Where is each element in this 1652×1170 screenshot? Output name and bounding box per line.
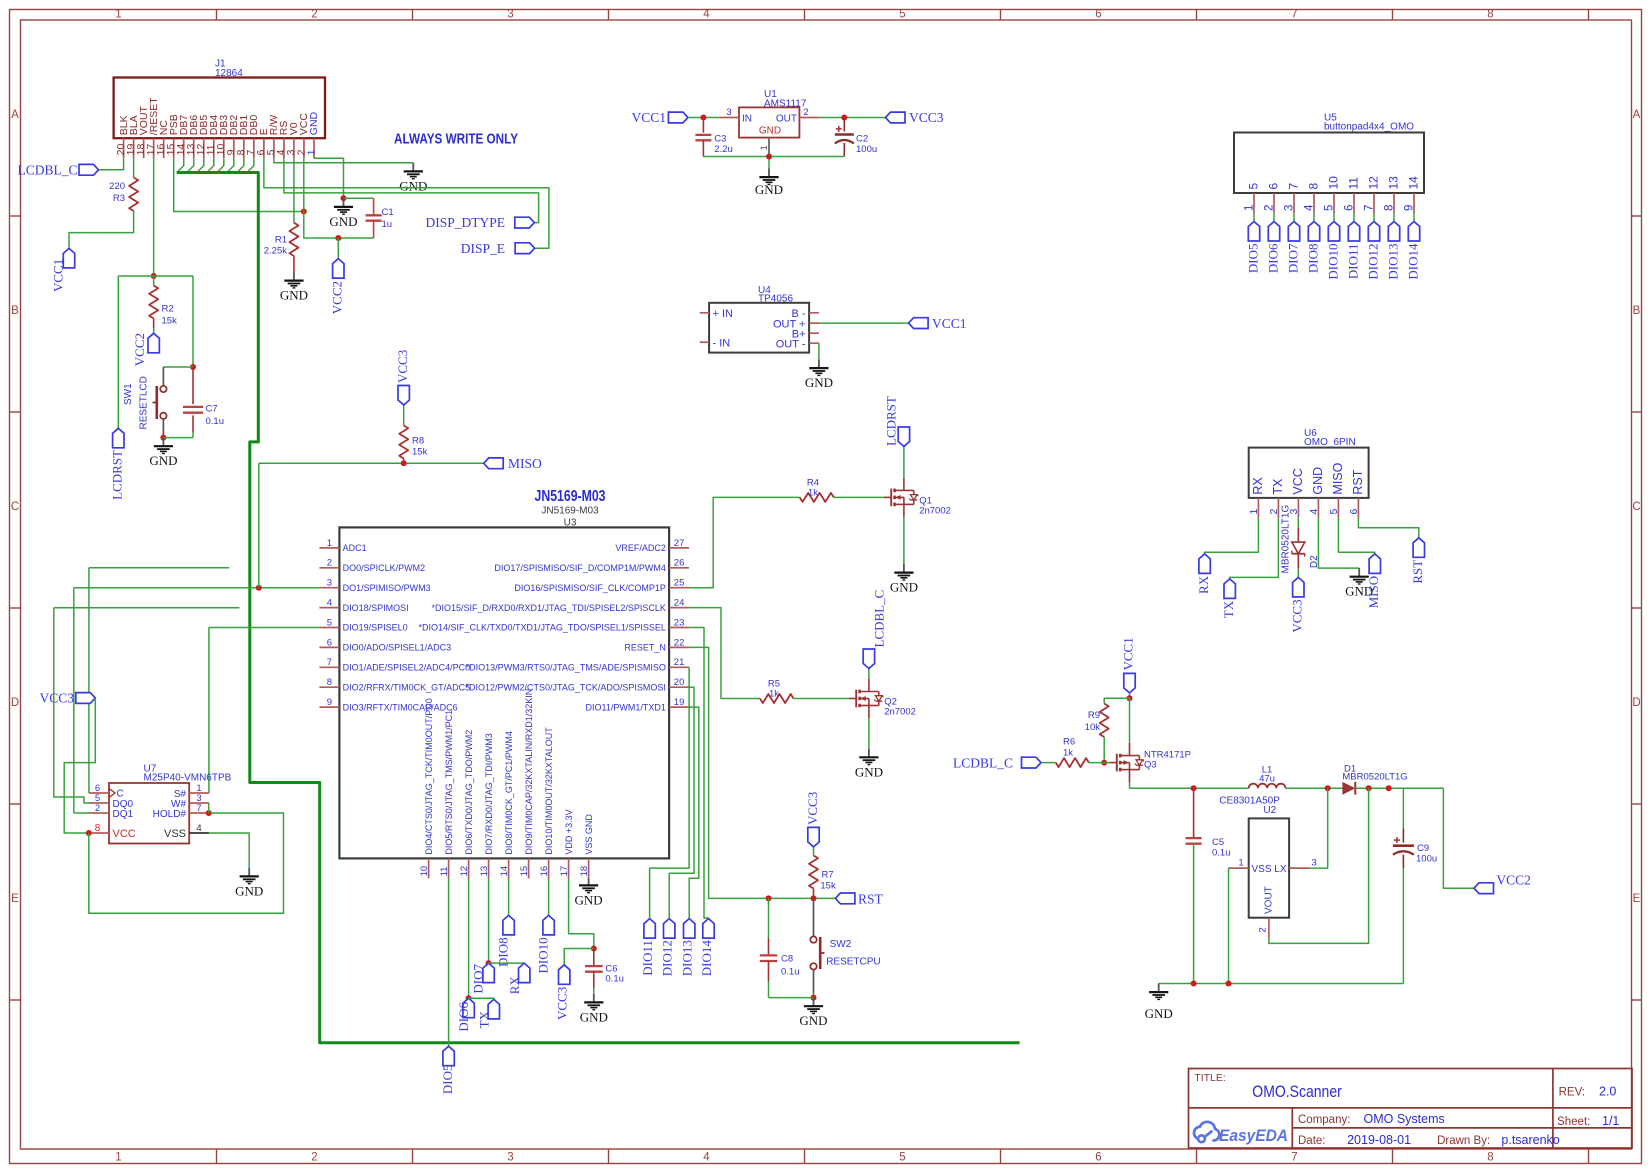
wire PSB to VCC pin (174, 158, 304, 211)
svg-text:1: 1 (115, 1152, 121, 1164)
svg-text:M25P40-VMN6TPB: M25P40-VMN6TPB (144, 773, 232, 784)
svg-text:TP4056: TP4056 (758, 294, 793, 305)
wire SPISEL0 net (209, 627, 320, 629)
svg-text:VSS: VSS (164, 828, 186, 840)
U1 pin 1 GND (768, 138, 770, 160)
U3 pin 26 DIO17/SPISMISO/SIF_D/COMP1M/PWM4 (669, 567, 689, 569)
net flag LCDBL_C (79, 164, 99, 175)
svg-text:GND: GND (1145, 1006, 1173, 1021)
svg-text:DIO12: DIO12 (660, 940, 675, 976)
svg-text:DIO10: DIO10 (536, 937, 551, 973)
svg-text:MBR0520LT1G: MBR0520LT1G (1281, 505, 1292, 574)
svg-text:GND: GND (308, 111, 320, 135)
wire OUT+ to VCC1 (819, 322, 909, 324)
U3 pin 2 DO0/SPICLK/PWM2 (319, 567, 339, 569)
wire W# tie (208, 803, 210, 813)
U3 pin 14 DIO8/TIM0CK_GT/PC1/PWM4 (508, 858, 510, 878)
resistor R4 1k (800, 493, 834, 502)
svg-text:D: D (11, 697, 19, 709)
net flag DIO5 (443, 1046, 454, 1066)
svg-text:DIO13: DIO13 (1385, 244, 1400, 280)
svg-text:7: 7 (1291, 9, 1297, 21)
U7 pin 3 W# (189, 802, 209, 804)
svg-text:11: 11 (439, 867, 450, 877)
net flag DIO11 (1348, 222, 1359, 242)
wire LCDBL_C to R6 (1041, 762, 1056, 764)
ground pin18 VSS (588, 878, 590, 885)
svg-text:VCC1: VCC1 (932, 316, 967, 331)
svg-text:DIO18/SPIMOSI: DIO18/SPIMOSI (343, 603, 409, 613)
net flag VCC3 at U6 (1293, 577, 1304, 597)
svg-text:DIO4/CTS0/JTAG_TCK/TIM0OUT/PC0: DIO4/CTS0/JTAG_TCK/TIM0OUT/PC0 (424, 698, 434, 854)
svg-text:6: 6 (1095, 9, 1101, 21)
U7 pin 8 VCC (89, 832, 109, 834)
junction C1 top (341, 195, 347, 201)
U7 pin 1 S# (189, 792, 209, 794)
svg-text:LCDRST: LCDRST (883, 396, 898, 446)
svg-text:100u: 100u (856, 144, 877, 155)
ground power section (1158, 984, 1160, 993)
charger U4 TP4056 (709, 303, 809, 353)
net flag MISO (484, 458, 504, 469)
J1 pin 10 DB3 (223, 138, 225, 158)
net flag RST (835, 893, 855, 904)
junction /RESET (151, 273, 157, 279)
svg-text:2: 2 (1268, 509, 1280, 515)
svg-text:100u: 100u (1416, 854, 1437, 865)
wire RS to DISP_DTYPE (284, 158, 539, 222)
svg-text:DIO12: DIO12 (1365, 244, 1380, 280)
wire GND pin 1 of J1 (314, 158, 344, 198)
svg-text:8: 8 (1487, 1152, 1493, 1164)
svg-text:7: 7 (1291, 1152, 1297, 1164)
junction SW1 bottom (160, 435, 166, 441)
svg-text:1: 1 (115, 9, 121, 21)
svg-text:- IN: - IN (713, 338, 731, 350)
net flag TX (488, 999, 499, 1019)
net flag DIO13 (684, 919, 695, 939)
svg-text:VCC2: VCC2 (1496, 873, 1531, 888)
regulator U2 CE8301A50P (1249, 818, 1289, 917)
junction VCC2 tap (335, 235, 341, 241)
svg-text:GND: GND (399, 178, 427, 193)
net flag LCDRST (113, 428, 124, 448)
U3 pin 3 DO1/SPIMISO/PWM3 (319, 587, 339, 589)
svg-text:27: 27 (674, 538, 685, 549)
wire pin25 to R4 (689, 497, 800, 587)
junction C5 (1191, 785, 1197, 791)
svg-text:RESETCPU: RESETCPU (826, 957, 880, 968)
svg-text:VCC3: VCC3 (909, 110, 944, 125)
wire to SW1/C7 (192, 276, 194, 367)
svg-text:JN5169-M03: JN5169-M03 (541, 506, 599, 517)
svg-text:12864: 12864 (215, 68, 243, 79)
svg-text:10: 10 (1327, 176, 1341, 190)
U3 pin 23 *DIO14/SIF_CLK/TXD0/TXD1/JTAG_TDO/SPISEL1/SPISSEL (669, 627, 689, 629)
svg-text:1: 1 (305, 149, 317, 155)
svg-text:VCC1: VCC1 (1121, 637, 1136, 670)
svg-text:8: 8 (1307, 183, 1321, 190)
svg-text:4: 4 (1303, 204, 1315, 211)
svg-text:Date:: Date: (1298, 1135, 1326, 1147)
J1 pin 20 BLK (123, 138, 125, 158)
U4 pin B+ (809, 332, 819, 334)
svg-text:Sheet:: Sheet: (1557, 1116, 1590, 1128)
ground Q2 (868, 749, 870, 758)
svg-text:VCC: VCC (113, 828, 136, 840)
net flag VCC2 below R2 (148, 333, 159, 353)
svg-text:DIO7: DIO7 (1285, 243, 1300, 273)
svg-text:RESETLCD: RESETLCD (139, 376, 150, 429)
wire VCC1 down (1129, 693, 1131, 698)
U3 pin 1 ADC1 (319, 547, 339, 549)
svg-text:MISO: MISO (1366, 576, 1381, 609)
wire to TX flag (469, 998, 494, 999)
wire Q1 drain to LCDRST (903, 447, 905, 478)
wire SPICLK net (89, 567, 229, 569)
U3 pin 13 DIO7/RXD0/JTAG_TDI/PWM3 (488, 858, 490, 878)
svg-text:DIO17/SPISMISO/SIF_D/COMP1M/PW: DIO17/SPISMISO/SIF_D/COMP1M/PWM4 (494, 563, 666, 573)
wire pin13 to DIO7/RX (488, 878, 490, 963)
svg-text:LCDBL_C: LCDBL_C (871, 590, 886, 648)
wire D1 out rail (1355, 787, 1443, 789)
wire pin11 to DIO5 (448, 878, 450, 1046)
ground SW1 (162, 438, 164, 447)
svg-text:4: 4 (327, 598, 332, 609)
svg-text:R7: R7 (822, 870, 834, 881)
svg-text:17: 17 (559, 866, 570, 877)
wire U6 MISO (1338, 518, 1374, 554)
svg-text:6: 6 (327, 637, 332, 648)
svg-text:DIO16/SPISMISO/SIF_CLK/COMP1P: DIO16/SPISMISO/SIF_CLK/COMP1P (514, 583, 666, 593)
U3 pin 17 VDD +3.3V (568, 858, 570, 878)
svg-text:13: 13 (479, 866, 490, 877)
net flag DIO8 (1308, 222, 1319, 242)
svg-text:MISO: MISO (1331, 462, 1345, 494)
U7 pin 7 HOLD# (189, 812, 209, 814)
svg-text:5: 5 (899, 9, 905, 21)
wire U5 pin 1 (1253, 213, 1255, 222)
svg-text:2: 2 (311, 1152, 317, 1164)
svg-text:VDD +3.3V: VDD +3.3V (564, 809, 574, 854)
svg-text:GND: GND (755, 182, 783, 197)
net flag VCC1 at U4 (909, 318, 929, 329)
wire to VCC2 (1443, 788, 1474, 888)
switch SW1 RESETLCD (162, 367, 164, 386)
capacitor C3 2.2u (702, 118, 704, 133)
svg-text:OMO.Scanner: OMO.Scanner (1252, 1083, 1342, 1101)
svg-text:12: 12 (1367, 176, 1381, 190)
svg-text:C9: C9 (1417, 843, 1429, 854)
svg-text:2.2u: 2.2u (714, 144, 733, 155)
svg-text:2: 2 (1263, 205, 1275, 211)
J1 pin 2 VCC (303, 138, 305, 158)
wire U6 GND (1318, 518, 1359, 568)
mcu U3 JN5169-M03 (339, 527, 669, 858)
wire VCC1 to IN (688, 117, 719, 119)
U3 pin 24 *DIO15/SIF_D/RXD0/RXD1/JTAG_TDI/SPISEL2/SPISCLK (669, 607, 689, 609)
svg-text:DIO5/RTS0/JTAG_TMS/PWM1/PC1: DIO5/RTS0/JTAG_TMS/PWM1/PC1 (444, 710, 454, 855)
svg-text:8: 8 (1487, 9, 1493, 21)
svg-text:5: 5 (899, 1152, 905, 1164)
junction VOUT return (1366, 785, 1372, 791)
U7 pin 2 DQ1 (89, 812, 109, 814)
svg-text:REV:: REV: (1559, 1087, 1585, 1099)
svg-text:23: 23 (674, 617, 685, 628)
svg-text:2: 2 (311, 9, 317, 21)
svg-text:2n7002: 2n7002 (919, 506, 951, 517)
svg-text:R9: R9 (1088, 710, 1100, 721)
capacitor C2 100u (843, 118, 845, 132)
svg-text:DIO3/RFTX/TIM0CAP/ADC6: DIO3/RFTX/TIM0CAP/ADC6 (343, 702, 458, 712)
wire R3 to VCC1 (69, 211, 134, 248)
svg-text:0.1u: 0.1u (1212, 848, 1231, 859)
U3 pin 8 DIO2/RFRX/TIM0CK_GT/ADC5 (319, 686, 339, 688)
junction SW1 top (190, 364, 196, 370)
svg-text:2.0: 2.0 (1599, 1085, 1616, 1099)
svg-text:DIO1/ADE/SPISEL2/ADC4/PC0: DIO1/ADE/SPISEL2/ADC4/PC0 (343, 663, 471, 673)
svg-text:4: 4 (703, 1152, 710, 1164)
svg-text:RST: RST (1410, 560, 1425, 584)
svg-text:*DIO13/PWM3/RTS0/JTAG_TMS/ADE/: *DIO13/PWM3/RTS0/JTAG_TMS/ADE/SPISMISO (466, 663, 666, 673)
svg-text:DIO2/RFRX/TIM0CK_GT/ADC5: DIO2/RFRX/TIM0CK_GT/ADC5 (343, 682, 471, 692)
resistor R2 15k (153, 276, 155, 286)
svg-text:DIO19/SPISEL0: DIO19/SPISEL0 (343, 623, 408, 633)
net flag DIO11 (644, 919, 655, 939)
J1 pin 12 DB5 (203, 138, 205, 158)
svg-text:LX: LX (1274, 864, 1287, 875)
net flag VCC3 at U7 (76, 693, 96, 704)
svg-text:OMO Systems: OMO Systems (1364, 1112, 1445, 1126)
svg-text:12: 12 (459, 866, 470, 877)
wire U6 VCC to D2 (1297, 518, 1299, 528)
svg-text:VSS GND: VSS GND (584, 814, 594, 855)
svg-text:2n7002: 2n7002 (884, 707, 916, 718)
net flag RX at U6 (1199, 554, 1210, 574)
svg-text:7: 7 (1363, 205, 1375, 211)
svg-text:25: 25 (674, 578, 685, 589)
wire VCC3 to U7 VCC (64, 698, 95, 833)
wire D2 to VCC3 (1297, 569, 1299, 578)
svg-text:DIO5: DIO5 (440, 1065, 455, 1095)
svg-text:GND: GND (805, 375, 833, 390)
svg-text:IN: IN (742, 114, 752, 125)
ground R1 (293, 272, 295, 281)
svg-text:VOUT: VOUT (1264, 886, 1275, 914)
svg-text:2.25k: 2.25k (264, 246, 287, 257)
svg-text:TX: TX (1271, 478, 1285, 495)
U1 pin 3 IN (719, 117, 739, 119)
svg-text:26: 26 (674, 558, 685, 569)
svg-text:0.1u: 0.1u (605, 973, 624, 984)
junction VSS gnd (1226, 981, 1232, 987)
wire LX to rail (1309, 788, 1327, 868)
J1 pin 15 PSB (173, 138, 175, 158)
net flag TX at U6 (1224, 579, 1235, 599)
net flag DIO8 (503, 915, 514, 935)
svg-text:OUT -: OUT - (776, 339, 806, 351)
junction DIO7 (486, 960, 492, 966)
J1 pin 4 RS (283, 138, 285, 158)
svg-text:JN5169-M03: JN5169-M03 (535, 488, 606, 505)
svg-text:GND: GND (235, 883, 263, 898)
wire VOUT loop (1269, 788, 1369, 943)
U3 pin 11 DIO5/RTS0/JTAG_TMS/PWM1/PC1 (448, 858, 450, 878)
net flag VCC1 at Q3 (1124, 673, 1135, 693)
wire R/W to GND (274, 158, 413, 163)
wire C7 to SW1 gnd (163, 437, 193, 439)
wire U5 pin 5 (1333, 213, 1335, 222)
svg-text:DIO13: DIO13 (680, 940, 695, 976)
net flag VCC1 (63, 248, 74, 268)
J1 pin 5 R/W (273, 138, 275, 158)
wire U6 RX (1205, 518, 1259, 554)
transistor Q1 2n7002 (884, 496, 891, 498)
svg-text:3: 3 (507, 9, 513, 21)
svg-text:5: 5 (1323, 205, 1335, 211)
svg-text:MBR0520LT1G: MBR0520LT1G (1342, 772, 1407, 783)
svg-text:3: 3 (1311, 857, 1316, 868)
junction R7 (811, 895, 817, 901)
resistor R9 10k (1100, 704, 1109, 738)
svg-text:DIO14: DIO14 (699, 940, 714, 977)
svg-text:TITLE:: TITLE: (1194, 1072, 1226, 1084)
svg-text:p.tsarenko: p.tsarenko (1501, 1133, 1559, 1147)
svg-text:OUT: OUT (776, 114, 797, 125)
J1 pin 13 DB6 (193, 138, 195, 158)
wire VCC-HOLD loop (89, 813, 284, 913)
capacitor C1 1u (373, 198, 375, 215)
net flag DISP_E (515, 243, 535, 254)
svg-text:1/1: 1/1 (1602, 1114, 1619, 1128)
wire U5 pin 3 (1293, 213, 1295, 222)
svg-text:0.1u: 0.1u (781, 967, 800, 978)
svg-text:RX: RX (1196, 575, 1211, 594)
U3 pin 16 DIO10/TIM0OUT/32KXTALOUT (548, 858, 550, 878)
J1 pin 11 DB4 (213, 138, 215, 158)
svg-text:2: 2 (803, 107, 808, 118)
net flag RST at U6 (1413, 538, 1424, 558)
resistor R8 15k (403, 405, 405, 426)
svg-text:VCC1: VCC1 (51, 259, 66, 292)
svg-text:C1: C1 (382, 207, 394, 218)
wire U5 pin 6 (1353, 213, 1355, 222)
U3 pin 7 DIO1/ADE/SPISEL2/ADC4/PC0 (319, 666, 339, 668)
net flag VCC3 at U1 (886, 112, 906, 123)
U3 pin 9 DIO3/RFTX/TIM0CAP/ADC6 (319, 706, 339, 708)
svg-text:Q3: Q3 (1144, 760, 1157, 771)
wire U5 pin 8 (1393, 213, 1395, 222)
wire U5 pin 7 (1373, 213, 1375, 222)
J1 pin 18 VOUT (143, 138, 145, 158)
svg-text:DIO6/TXD0/JTAG_TDO/PWM2: DIO6/TXD0/JTAG_TDO/PWM2 (464, 730, 474, 855)
svg-text:24: 24 (674, 598, 685, 609)
svg-text:VSS: VSS (1252, 864, 1272, 875)
resistor R3 220 (129, 178, 138, 212)
svg-text:22: 22 (674, 637, 685, 648)
U4 pin -IN (700, 341, 709, 343)
wire U6 TX (1230, 518, 1279, 579)
svg-text:ADC1: ADC1 (343, 543, 367, 553)
svg-text:C: C (1632, 501, 1640, 513)
wire V0 to R1 (293, 158, 295, 223)
svg-text:21: 21 (674, 657, 685, 668)
svg-text:RESET_N: RESET_N (624, 643, 666, 653)
svg-text:EasyEDA: EasyEDA (1219, 1126, 1288, 1145)
junction U7 VCC (86, 830, 92, 836)
svg-text:C8: C8 (781, 954, 793, 965)
svg-text:RX: RX (507, 976, 522, 995)
svg-text:C7: C7 (206, 404, 218, 415)
svg-text:GND: GND (759, 125, 781, 136)
net flag DISP_DTYPE (515, 217, 535, 228)
svg-text:TX: TX (477, 1010, 492, 1028)
J1 pin 7 DB0 (253, 138, 255, 158)
svg-text:1: 1 (1238, 857, 1243, 868)
svg-text:*DIO15/SIF_D/RXD0/RXD1/JTAG_TD: *DIO15/SIF_D/RXD0/RXD1/JTAG_TDI/SPISEL2/… (431, 603, 665, 613)
svg-text:DIO9/TIM0CAP/32KXTALIN/RXD1/32: DIO9/TIM0CAP/32KXTALIN/RXD1/32KIN (524, 689, 534, 855)
net flag VCC3 at VDD (559, 965, 570, 985)
svg-text:4: 4 (1308, 509, 1320, 515)
svg-text:3: 3 (1283, 205, 1295, 211)
capacitor C9 100u (1402, 788, 1404, 828)
svg-text:DIO6: DIO6 (456, 1002, 471, 1032)
connector U6 OMO_6PIN (1249, 448, 1369, 498)
inductor L1 47u (1249, 784, 1286, 789)
wire BLA to R3 (133, 158, 135, 177)
svg-text:C2: C2 (856, 134, 868, 145)
svg-text:15k: 15k (820, 881, 836, 892)
svg-text:DIO11: DIO11 (640, 940, 655, 976)
junction C9 rail (1386, 785, 1392, 791)
U3 pin 5 DIO19/SPISEL0 (319, 627, 339, 629)
svg-text:5: 5 (1247, 183, 1261, 190)
svg-text:11: 11 (1347, 177, 1361, 190)
wire OUT to VCC3 (820, 117, 886, 119)
wire pin20 to DIO12 (669, 687, 694, 918)
svg-text:6: 6 (1348, 509, 1360, 515)
ground at J1 pin1 (343, 198, 345, 207)
U4 pin OUT- (809, 342, 819, 344)
wire reset loop (118, 275, 193, 277)
net flag DIO10 (543, 915, 554, 935)
svg-text:DIO6: DIO6 (1265, 243, 1280, 273)
title block (1189, 1069, 1633, 1149)
wire E to DISP_E (264, 158, 549, 248)
wire to VCC3 flag (564, 949, 594, 965)
junction SPIMISO-MISO (256, 585, 262, 591)
svg-text:3: 3 (726, 107, 731, 118)
svg-text:R6: R6 (1063, 737, 1075, 748)
svg-text:B: B (11, 305, 19, 317)
junction C3 (700, 115, 706, 121)
svg-text:220: 220 (109, 181, 125, 192)
wire U1 ground rail (703, 156, 844, 158)
capacitor C5 0.1u (1193, 788, 1195, 837)
svg-text:14: 14 (499, 866, 510, 877)
wire BLK to LCDBL_C (99, 158, 124, 170)
svg-text:R3: R3 (113, 193, 125, 204)
junction LX (1325, 785, 1331, 791)
ground C6 (593, 994, 595, 1003)
svg-text:7: 7 (327, 657, 332, 668)
svg-text:14: 14 (1407, 176, 1421, 190)
U3 pin 15 DIO9/TIM0CAP/32KXTALIN/RXD1/32KIN (528, 858, 530, 878)
junction VCC1 (1127, 695, 1133, 701)
svg-text:R8: R8 (412, 436, 424, 447)
svg-text:U2: U2 (1263, 805, 1276, 816)
net flag DIO6 (463, 998, 474, 1018)
